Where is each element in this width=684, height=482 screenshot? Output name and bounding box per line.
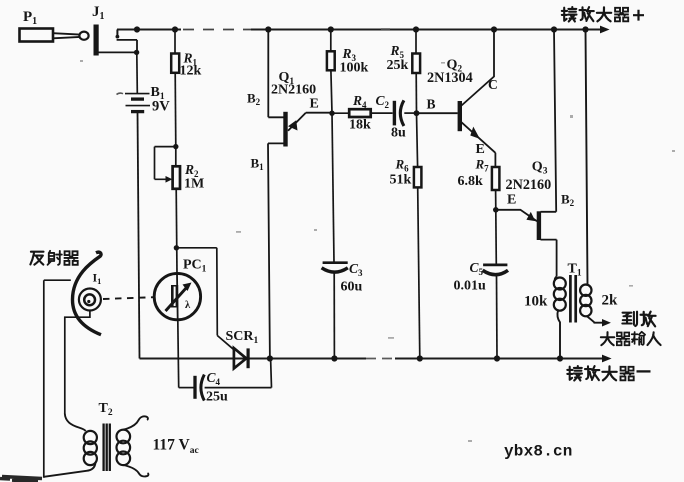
- node R2 top junction: [173, 144, 178, 149]
- junction R6 / bottom rail: [417, 355, 423, 361]
- node R7 / Q3 emitter junction: [493, 207, 499, 213]
- T2 secondary coil (left): [84, 431, 97, 444]
- label to amplifier input (dao fang / da qi shu ru): [601, 312, 661, 346]
- scan smudge bottom-left: [0, 477, 42, 482]
- SCR1 thyristor: [234, 348, 248, 368]
- svg-text:12k: 12k: [180, 64, 202, 79]
- wire R4 to C2: [371, 112, 393, 114]
- junction C5 / bottom rail: [494, 355, 500, 361]
- svg-text:ybx8.cn: ybx8.cn: [504, 443, 573, 461]
- reflector arc: [72, 252, 101, 334]
- label to-amplifier-plus (jie fang da qi +): [562, 7, 644, 22]
- junction T1-primary / bottom rail: [557, 355, 563, 361]
- Q2 bar: [458, 101, 462, 131]
- wire bottom return rail: [140, 358, 367, 360]
- svg-text:18k: 18k: [349, 118, 371, 133]
- lamp I1: [79, 289, 101, 311]
- resistor R7 6.8k: [492, 167, 500, 190]
- transistor Q2 2N1304: [417, 30, 496, 168]
- node jack/battery junction: [134, 50, 139, 55]
- node PC1 top / gate branch junction: [174, 245, 179, 250]
- T1 primary coil: [554, 278, 566, 290]
- Q3 emitter arrowhead: [526, 212, 535, 221]
- photocell PC1: [154, 273, 200, 319]
- junction Q2-collector / top rail: [491, 26, 497, 32]
- junction T1-secondary / top rail: [582, 26, 588, 32]
- unijunction transistor Q1 2N2160: [268, 30, 332, 359]
- resistor R4 18k: [349, 109, 371, 117]
- svg-text:60u: 60u: [341, 280, 363, 295]
- wire gate branch to SCR: [176, 248, 234, 350]
- wire lamp left lead: [44, 280, 71, 478]
- scan mark left of battery: [117, 93, 124, 94]
- node Q1 emitter / R3 junction: [329, 111, 334, 116]
- svg-text:B: B: [427, 97, 436, 112]
- junction Q1-B2 / top rail: [265, 26, 271, 32]
- wire jack to battery: [136, 52, 139, 93]
- arrow bottom rail to amplifier -: [602, 355, 612, 363]
- Q1 emitter lead: [288, 113, 332, 131]
- svg-text:2k: 2k: [602, 293, 619, 309]
- junction Q3-B2 / top rail: [551, 26, 557, 32]
- junction Q1-B1 / C4 / bottom rail: [267, 355, 273, 361]
- capacitor C5 0.01u: [483, 263, 507, 266]
- unijunction transistor Q3 2N2160: [496, 30, 557, 277]
- wire junction to C5: [495, 210, 498, 265]
- resistor R2 1M (rheostat): [175, 147, 177, 167]
- arrow top rail to amplifier +: [600, 26, 610, 34]
- resistor R1 12k: [174, 30, 176, 54]
- T1 secondary coil: [580, 285, 591, 296]
- dashed light beam: [103, 297, 154, 299]
- svg-text:1M: 1M: [184, 177, 204, 192]
- jack J1: [94, 25, 137, 55]
- T1 core: [570, 275, 575, 323]
- wire PC1 bottom to C4: [177, 320, 180, 388]
- label reflector (fan she qi): [30, 252, 43, 265]
- Q3 base-2 lead: [541, 30, 557, 212]
- svg-text:λ: λ: [185, 300, 191, 311]
- svg-text:2N2160: 2N2160: [506, 177, 552, 193]
- capacitor C3 60u: [332, 113, 334, 262]
- svg-text:C: C: [488, 77, 498, 92]
- svg-text:2N2160: 2N2160: [271, 83, 316, 98]
- junction R1 / top rail: [172, 26, 178, 32]
- battery B1 9V: [125, 94, 150, 112]
- Q1 emitter arrowhead: [288, 120, 298, 130]
- Q3 emitter lead: [496, 210, 537, 222]
- svg-text:100k: 100k: [340, 61, 369, 76]
- resistor R3 100k: [330, 30, 332, 52]
- Q2 emitter lead: [462, 122, 496, 167]
- Q1 bar: [283, 112, 287, 147]
- Q1 base-1 lead: [268, 143, 284, 358]
- node B (Q2 base): [414, 110, 420, 116]
- junction R5 / top rail: [413, 26, 419, 32]
- T2 primary coil (right): [117, 430, 131, 444]
- scan speckles: [80, 28, 675, 442]
- wire R1 to R2: [174, 73, 177, 147]
- wire to R4: [332, 112, 349, 114]
- svg-text:2N1304: 2N1304: [427, 70, 473, 86]
- label to-amplifier-minus (jie fang da qi -): [567, 366, 650, 381]
- svg-text:E: E: [310, 97, 319, 112]
- Q2 emitter arrowhead: [470, 127, 480, 139]
- junction J1 / top rail: [134, 26, 140, 32]
- capacitor C4 25u: [179, 387, 194, 389]
- svg-text:10k: 10k: [524, 294, 548, 310]
- wire top supply rail: [117, 29, 181, 31]
- Q2 base lead: [417, 112, 458, 114]
- svg-text:6.8k: 6.8k: [458, 174, 484, 189]
- svg-text:E: E: [507, 193, 516, 208]
- svg-text:25k: 25k: [387, 58, 409, 73]
- arrow to amplifier input: [602, 319, 611, 327]
- junction R3 / top rail: [328, 26, 334, 32]
- Q3 bar: [537, 211, 541, 240]
- junction C3 / bottom rail: [331, 355, 337, 361]
- Q2 collector lead: [462, 30, 495, 106]
- Q1 base-2 lead: [268, 30, 283, 118]
- svg-text:8u: 8u: [391, 126, 406, 141]
- resistor R6 51k: [417, 113, 418, 167]
- resistor R5 25k: [415, 30, 417, 54]
- wire R2 to PC1: [175, 189, 178, 274]
- svg-text:E: E: [476, 142, 485, 157]
- wire lamp bottom lead: [65, 311, 90, 414]
- plug P1: [20, 29, 89, 42]
- capacitor C2 8u: [393, 101, 396, 126]
- svg-text:25u: 25u: [206, 390, 228, 405]
- svg-text:9V: 9V: [152, 99, 170, 115]
- T2 core: [104, 424, 110, 472]
- svg-text:0.01u: 0.01u: [454, 279, 487, 294]
- svg-text:51k: 51k: [390, 173, 412, 188]
- wire battery to bottom rail corner: [138, 112, 140, 359]
- Q3 base-1 lead: [541, 240, 557, 277]
